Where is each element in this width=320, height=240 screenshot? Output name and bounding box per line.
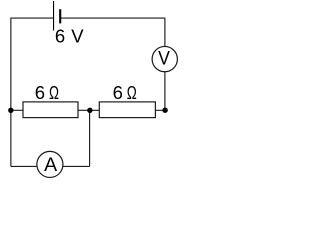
svg-text:Ω: Ω xyxy=(49,83,59,103)
node mid junction xyxy=(87,108,92,113)
battery long plate xyxy=(53,1,55,31)
wire top-right from battery to top-right corner down to voltmeter xyxy=(60,18,165,110)
svg-text:A: A xyxy=(44,154,57,176)
node left junction xyxy=(8,108,13,113)
voltmeter V circle xyxy=(152,46,177,71)
svg-text:6 V: 6 V xyxy=(55,26,84,47)
resistor R1 box xyxy=(23,102,78,118)
wire middle row xyxy=(11,109,165,111)
svg-text:6: 6 xyxy=(113,82,123,103)
ammeter circle xyxy=(37,151,63,177)
wire from mid junction down to bottom xyxy=(89,110,91,166)
battery short thick plate xyxy=(59,9,61,23)
svg-text:V: V xyxy=(158,48,170,70)
node right junction xyxy=(162,108,167,113)
resistor R2 box xyxy=(99,102,155,118)
svg-text:6: 6 xyxy=(35,82,45,103)
wire bottom xyxy=(11,165,90,167)
wire top-left from battery to top-left corner xyxy=(11,18,54,166)
svg-text:Ω: Ω xyxy=(127,83,137,103)
